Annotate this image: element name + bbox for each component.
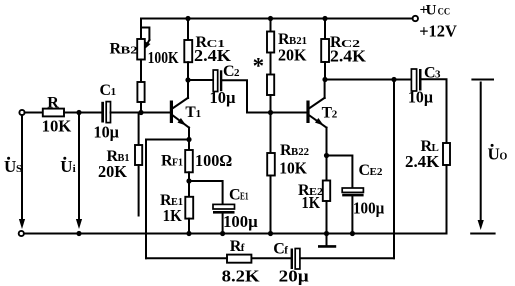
label Uo — [488, 144, 508, 164]
node: rail dot below CE1 — [220, 231, 225, 236]
wire: T2 base node to RB22 — [270, 113, 272, 154]
label RC2 — [330, 34, 361, 51]
label 2.4K (RC2) — [330, 47, 367, 66]
svg-text:F1: F1 — [172, 157, 183, 169]
label T2 — [322, 105, 338, 122]
svg-text:B22: B22 — [291, 146, 309, 158]
wire: RB2 to lower bias resistor — [140, 60, 142, 83]
label Cf — [273, 241, 288, 258]
node: T1 base junction dot — [138, 110, 143, 115]
label 2.4K (RC1) — [194, 46, 232, 65]
wire: emitter junction to RE2 — [326, 156, 328, 181]
node: T1 emitter junction dot — [186, 137, 191, 142]
transistor T2 base bar — [306, 101, 309, 124]
node: rail dot at RC2 — [322, 16, 327, 21]
label CE2 — [359, 162, 383, 179]
wire: junction to CE1 — [189, 181, 223, 204]
node: rail dot below RB22 — [268, 231, 273, 236]
svg-text:2.4K: 2.4K — [330, 47, 367, 66]
wire: emitter to RF1 — [188, 140, 190, 151]
label RB1 — [107, 148, 130, 165]
label T1 — [185, 104, 201, 121]
capacitor C1 — [101, 102, 110, 123]
wire: base node down to RB1 — [138, 113, 140, 146]
capacitor CE1 (100u) — [213, 204, 235, 213]
label 10u (C2) — [210, 88, 236, 107]
svg-text:U: U — [488, 144, 500, 163]
label Us — [4, 157, 22, 176]
svg-text:U: U — [60, 157, 72, 176]
wire: RB21 to lower bias segment — [270, 53, 272, 75]
label RL — [421, 138, 439, 155]
label 100u (CE2) — [353, 199, 384, 218]
capacitor Cf (20u) — [291, 249, 300, 270]
resistor RC2 (2.4K) — [321, 39, 329, 62]
svg-text:10µ: 10µ — [210, 88, 236, 107]
wire: C3 to RL — [422, 79, 447, 143]
svg-text:100Ω: 100Ω — [195, 151, 232, 170]
wire: feedback bottom run (right) — [300, 257, 394, 259]
wire: bias resistor to T1 base node — [140, 102, 142, 113]
label RC1 — [196, 34, 226, 51]
label +12V — [419, 21, 457, 40]
label RB22 — [280, 142, 309, 159]
wire: rail to RB21 — [270, 19, 272, 32]
transistor T1 emitter arm with arrow — [173, 115, 189, 127]
svg-text:E2: E2 — [370, 166, 383, 178]
svg-text:+12V: +12V — [419, 21, 457, 40]
node: rail dot at RB21 — [268, 16, 273, 21]
svg-text:100µ: 100µ — [223, 212, 258, 231]
resistor R — [43, 109, 64, 117]
wire: input terminal to R — [25, 112, 43, 114]
resistor RB21 (20K) — [267, 32, 274, 53]
svg-text:i: i — [73, 163, 76, 175]
node: rail dot below CE2 — [350, 231, 355, 236]
wire: bottom ground rail — [24, 233, 447, 235]
svg-text:100µ: 100µ — [353, 199, 384, 218]
label C2 — [223, 63, 240, 80]
svg-text:1K: 1K — [163, 206, 183, 225]
wire: RL to ground rail — [446, 165, 448, 234]
resistor RE1 (1K) — [185, 197, 193, 219]
label 100u (CE1) — [223, 212, 258, 231]
svg-text:10µ: 10µ — [94, 123, 120, 142]
label CE1 — [229, 187, 249, 204]
label 1K (RE2) — [302, 193, 321, 212]
node: T2 collector dot — [322, 77, 327, 82]
label 20u (Cf) — [279, 267, 309, 286]
svg-text:8.2K: 8.2K — [222, 267, 261, 286]
svg-text:C: C — [359, 162, 371, 179]
node: feedback take-off dot — [391, 77, 396, 82]
svg-text:f: f — [284, 245, 288, 257]
wire: +Ucc top supply rail — [141, 18, 412, 20]
label 20K (RB1) — [98, 162, 128, 181]
arrow: Uo output voltage indicator top bar — [472, 79, 493, 81]
resistor RB1 (20K) — [135, 145, 142, 165]
svg-text:C: C — [223, 63, 235, 80]
wire: junction to RE1 — [188, 181, 190, 197]
wiper arrow of RB2 — [141, 28, 151, 49]
label R — [47, 94, 59, 111]
wire: C2 to T2 base — [222, 80, 306, 112]
arrow: Uo output voltage indicator — [478, 83, 484, 231]
wire: C1 to T1 base, through RB2/RB1 node — [111, 112, 170, 114]
label +Ucc — [420, 3, 451, 19]
svg-text:U: U — [4, 157, 16, 176]
svg-text:B2: B2 — [121, 45, 139, 57]
wire: CE1 to ground rail — [222, 214, 224, 234]
wire: T1 collector to C2 — [188, 79, 213, 81]
wire: RE2 to ground rail — [326, 201, 328, 234]
node: T2 base junction dot — [268, 110, 273, 115]
label 100ohm (RF1) — [195, 151, 232, 170]
capacitor CE2 (100u) — [342, 188, 363, 196]
svg-text:20µ: 20µ — [279, 267, 309, 286]
wire: rail to RB2 — [140, 19, 142, 40]
wire: T2 collector node to C3 — [325, 79, 411, 81]
svg-text:S: S — [16, 163, 22, 175]
label 1K (RE1) — [163, 206, 183, 225]
svg-text:C: C — [229, 187, 241, 204]
svg-text:R: R — [47, 94, 59, 111]
label Ui — [60, 157, 75, 176]
node: rail dot below RE1 — [186, 231, 191, 236]
wire: R to C1 — [64, 112, 101, 114]
node: rail dot below RE2 — [324, 231, 329, 236]
resistor (lower bias segment of RB2 chain) — [137, 82, 144, 102]
ground symbol — [318, 234, 336, 247]
resistor (lower bias segment of RB21 chain) — [267, 75, 274, 96]
label RB2 — [110, 41, 139, 58]
node: RF1/RE1/CE1 junction dot — [186, 178, 191, 183]
label RE1 — [160, 192, 183, 209]
wire: Cf to Rf — [251, 257, 290, 259]
wire: bias segment to T2 base node — [270, 95, 272, 113]
arrow: Us source voltage indicator — [19, 115, 25, 229]
wire: RE1 to ground rail — [188, 219, 190, 234]
label 20K (RB21) — [278, 45, 307, 64]
wire: Rf to feedback riser — [146, 257, 227, 259]
node: rail dot at Ui arrow — [76, 231, 81, 236]
svg-text:C: C — [273, 241, 285, 258]
label RB21 — [278, 31, 307, 48]
wire: RB1 lower stub — [138, 165, 140, 216]
svg-text:1: 1 — [196, 108, 202, 120]
resistor RF1 (100 ohm) — [185, 150, 193, 172]
label 10u (C3) — [408, 88, 433, 107]
wire: RB22 to ground rail — [270, 176, 272, 234]
svg-text:10K: 10K — [279, 158, 307, 177]
resistor RL (2.4K) — [443, 143, 450, 165]
label 100K (RB2) — [148, 48, 180, 67]
svg-text:2: 2 — [234, 67, 240, 79]
wire: T2 collector vertical — [324, 80, 326, 99]
resistor RC1 (2.4K) — [184, 40, 192, 62]
label RE2 — [298, 182, 324, 199]
wire: RC2 to T2 collector node — [324, 62, 326, 80]
arrow: Ui input voltage indicator — [76, 113, 82, 230]
wire: RC1 to T1 collector node — [187, 62, 189, 98]
node: rail dot at RC1 — [185, 16, 190, 21]
transistor T1 collector arm — [173, 98, 188, 109]
wire: feedback drop from collector node — [393, 80, 395, 259]
capacitor C2 — [213, 70, 222, 92]
transistor T2 collector arm — [309, 98, 324, 109]
svg-text:2.4K: 2.4K — [405, 152, 440, 171]
resistor RE2 (1K) — [323, 181, 330, 202]
svg-text:f: f — [241, 242, 245, 254]
transistor T1 base bar — [170, 101, 173, 124]
capacitor C3 (10u) — [411, 69, 421, 91]
label 10K (RB22) — [279, 158, 307, 177]
wire: feedback tap from T1 emitter — [146, 140, 189, 259]
resistor RB2 (adjustable, 100K) — [137, 39, 145, 60]
resistor Rf (8.2K) — [227, 255, 251, 263]
svg-text:O: O — [500, 151, 508, 162]
terminal: top-left input terminal circle — [19, 110, 24, 115]
terminal: +Ucc supply terminal circle — [413, 16, 418, 21]
svg-text:1: 1 — [111, 86, 117, 98]
label Rf — [230, 238, 245, 255]
wire: T2 emitter vertical — [326, 128, 328, 156]
svg-text:CC: CC — [438, 8, 451, 18]
svg-text:C: C — [100, 82, 112, 99]
wire: T1 emitter vertical — [188, 128, 190, 140]
terminal: bottom-left input terminal circle — [19, 231, 24, 236]
svg-text:20K: 20K — [98, 162, 128, 181]
wire: rail to RC1 — [187, 19, 189, 41]
label 2.4K (RL) — [405, 152, 440, 171]
label RF1 — [161, 153, 183, 170]
resistor RB22 (10K) — [267, 153, 275, 176]
arrow: Uo output indicator bottom bar — [471, 233, 494, 235]
transistor T2 emitter arm with arrow — [309, 115, 326, 127]
svg-text:2: 2 — [332, 109, 338, 121]
svg-text:E1: E1 — [240, 191, 249, 203]
wire: CE2 to ground rail — [351, 196, 353, 233]
node: T1 collector dot — [185, 77, 190, 82]
wire: rail to RC2 — [324, 19, 326, 40]
label * (adjust mark) — [253, 54, 265, 79]
svg-text:+U: +U — [420, 3, 437, 19]
svg-text:10µ: 10µ — [408, 88, 433, 107]
node: Ui pick-off dot — [76, 110, 81, 115]
node: T2 emitter junction dot — [324, 153, 329, 158]
svg-text:*: * — [253, 54, 265, 79]
label 10K (R) — [42, 116, 72, 135]
svg-text:20K: 20K — [278, 45, 307, 64]
label 8.2K (Rf) — [222, 267, 261, 286]
svg-text:100K: 100K — [148, 48, 180, 67]
svg-text:10K: 10K — [42, 116, 72, 135]
label C1 — [100, 82, 117, 99]
wire: RF1 to RE1 node — [188, 172, 190, 181]
label 10u (C1) — [94, 123, 120, 142]
wire: emitter junction to CE2 — [327, 156, 353, 189]
svg-text:1K: 1K — [302, 193, 321, 212]
label C3 — [424, 65, 441, 82]
